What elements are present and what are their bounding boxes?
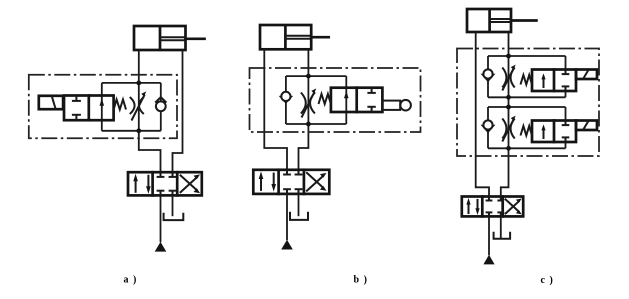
svg-text:a): a) xyxy=(124,275,137,286)
junction dot a bottom xyxy=(136,128,141,133)
check valve c2 (ball and seat) xyxy=(481,120,496,133)
unit 1 parallel box: bottom edge xyxy=(488,96,566,98)
wire: valve a port P to pump xyxy=(160,195,162,242)
unit 1 parallel box: top edge xyxy=(488,55,566,57)
unit 2 left branch (check valve branch) xyxy=(487,107,489,148)
parallel box a: top edge xyxy=(102,82,161,84)
unit 1 left branch (check valve branch) xyxy=(487,56,489,97)
cylinder C xyxy=(467,9,536,32)
4/3 directional valve c xyxy=(462,197,523,217)
2/2 bypass valve c1 (solenoid operated) xyxy=(532,70,576,92)
junction dot c1 top xyxy=(506,54,511,59)
return spring c1 xyxy=(521,75,533,85)
check valve a (ball and seat) xyxy=(155,97,166,111)
tank b xyxy=(290,212,308,220)
unit 2 right branch (through 2/2 valve) xyxy=(565,107,567,148)
svg-text:c): c) xyxy=(541,275,553,286)
junction dot b bottom xyxy=(306,122,311,127)
enclosure a (dash-dot assembly boundary) xyxy=(29,75,177,139)
tank a xyxy=(164,213,184,220)
parallel box a: bottom edge xyxy=(102,130,161,132)
junction dot c2 bottom xyxy=(506,146,511,151)
parallel box b: right branch (through 2/2 valve) xyxy=(345,76,347,124)
wire: cylinder A head-side port down to flow-control unit and valve port A xyxy=(139,50,161,172)
pressure source b (filled triangle) xyxy=(281,240,293,250)
solenoid actuator a xyxy=(39,96,63,109)
unit 2 parallel box: bottom edge xyxy=(488,147,566,149)
wire: valve a port T to tank xyxy=(172,195,174,216)
cylinder B xyxy=(260,25,329,49)
4/3 directional valve b xyxy=(253,170,329,194)
wire: cylinder B rod-side port through flow unit to valve b port B xyxy=(299,49,309,170)
wire: valve c port T to tank xyxy=(500,216,502,238)
unit 2 parallel box: top edge xyxy=(488,106,566,108)
junction dot c2 top xyxy=(506,105,511,110)
wire: cylinder C rod-side port through both flow units to valve c port B xyxy=(501,32,509,197)
junction dot b top xyxy=(306,74,311,79)
wire: valve b port P to pump xyxy=(286,194,288,240)
return spring b xyxy=(319,94,331,104)
parallel box b: top edge xyxy=(286,75,346,77)
enclosure c (dash-dot assembly boundary) xyxy=(457,49,599,157)
cylinder A (single-rod, horizontal) xyxy=(134,26,205,50)
svg-text:b): b) xyxy=(354,275,367,286)
return spring a xyxy=(114,100,126,110)
junction dot a top xyxy=(136,81,141,86)
2/2 bypass valve c2 (solenoid operated) xyxy=(532,121,576,143)
parallel box b: left branch (check valve branch) xyxy=(285,76,287,124)
parallel box b: bottom edge xyxy=(286,123,346,125)
junction dot c1 bottom xyxy=(506,95,511,100)
wire: cylinder A rod-side port down to valve port B xyxy=(173,50,183,172)
unit 1 right branch (through 2/2 valve) xyxy=(565,56,567,97)
2/2 bypass valve b (mechanically operated) xyxy=(331,88,383,112)
4/3 directional valve a xyxy=(128,172,202,195)
throttle (adjustable) a xyxy=(130,91,147,120)
solenoid actuator c1 xyxy=(576,70,597,80)
return spring c2 xyxy=(521,126,533,136)
wire: valve b port T to tank xyxy=(298,194,300,216)
check valve c1 (ball and seat) xyxy=(481,69,496,82)
tank c xyxy=(494,232,511,239)
throttle (adjustable) c2 xyxy=(502,116,515,142)
pressure source a (filled triangle) xyxy=(155,242,167,252)
wire: cylinder B head-side port to valve b port A xyxy=(264,49,287,170)
solenoid actuator c2 xyxy=(576,121,597,131)
wire: valve c port P to pump xyxy=(488,216,490,255)
throttle (adjustable) b xyxy=(301,88,316,117)
wire: cylinder C head-side port to valve c port A xyxy=(476,32,489,197)
check valve b (ball and seat) xyxy=(279,92,293,104)
enclosure b (dash-dot assembly boundary) xyxy=(250,68,421,132)
2/2 bypass valve a (solenoid operated) xyxy=(64,96,114,121)
plunger/roller actuator b xyxy=(382,100,411,111)
parallel box a: left branch (through 2/2 valve) xyxy=(101,83,103,131)
parallel box a: right branch (check valve branch) xyxy=(160,83,162,131)
throttle (adjustable) c1 xyxy=(502,65,515,91)
pressure source c (filled triangle) xyxy=(483,255,494,265)
